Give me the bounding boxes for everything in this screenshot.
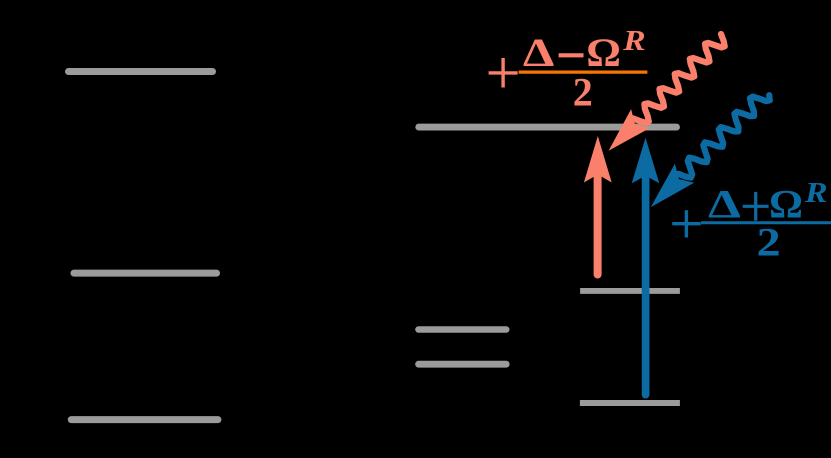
energy level left bottom xyxy=(71,416,218,423)
label minus sign (salmon) xyxy=(559,53,584,57)
blue vertical transition arrow shaft xyxy=(642,178,650,395)
blue photon arrowhead xyxy=(651,164,694,208)
label plus sign of salmon formula xyxy=(489,58,518,88)
svg-text:R: R xyxy=(804,177,828,209)
energy level middle doublet upper xyxy=(418,326,506,332)
svg-text:Δ: Δ xyxy=(523,31,554,75)
energy level middle doublet lower xyxy=(419,361,507,368)
energy level right middle xyxy=(580,288,680,294)
label plus sign of blue formula xyxy=(672,210,701,237)
salmon vertical transition arrow shaft xyxy=(594,177,602,275)
energy level left top xyxy=(69,68,213,75)
blue fraction bar xyxy=(701,221,831,224)
svg-text:R: R xyxy=(622,24,645,56)
salmon photon arrowhead xyxy=(609,109,651,151)
svg-text:2: 2 xyxy=(573,70,593,115)
energy level left middle xyxy=(74,270,217,277)
orange fraction bar xyxy=(519,70,648,73)
svg-text:2: 2 xyxy=(757,219,781,264)
energy level right bottom xyxy=(580,400,680,406)
blue photon wavy line xyxy=(678,95,770,177)
label numerator plus sign (blue) xyxy=(743,192,769,221)
energy level dressed top right xyxy=(419,124,677,131)
salmon photon wavy line xyxy=(633,34,725,123)
blue vertical transition arrowhead xyxy=(632,138,660,184)
svg-text:Δ: Δ xyxy=(708,183,741,228)
salmon vertical transition arrowhead xyxy=(584,136,612,183)
